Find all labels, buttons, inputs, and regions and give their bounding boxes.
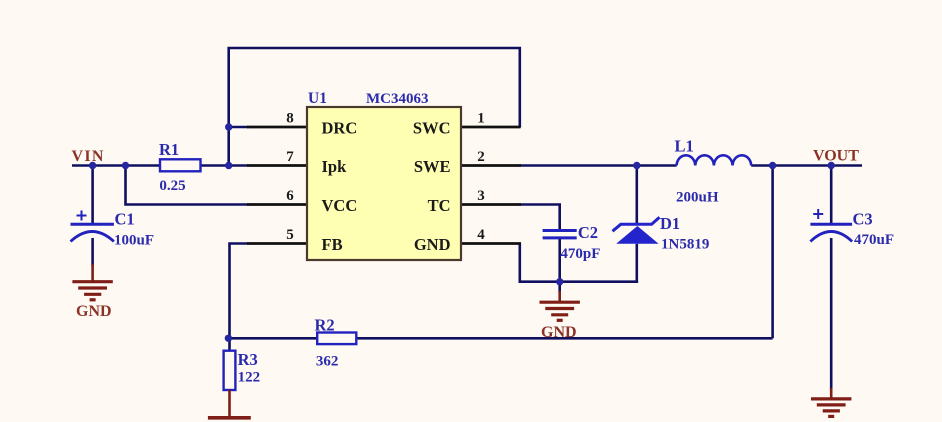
inductor L1 (677, 155, 752, 165)
op-amp U1 body MC34063 (307, 107, 461, 260)
svg-text:5: 5 (286, 227, 294, 243)
svg-text:MC34063: MC34063 (366, 91, 429, 107)
svg-text:362: 362 (316, 354, 339, 370)
svg-text:SWE: SWE (414, 157, 451, 176)
svg-text:U1: U1 (308, 90, 327, 107)
ground symbol under C2 (540, 291, 580, 320)
wire GND pin4 down to bottom rail (520, 244, 638, 282)
ground symbol under C1 (72, 264, 112, 300)
svg-text:C3: C3 (853, 210, 873, 229)
capacitor C3 (810, 209, 852, 242)
svg-text:SWC: SWC (413, 119, 451, 138)
wire VCC feed (126, 166, 249, 205)
wire C3 top (830, 166, 833, 226)
svg-text:VOUT: VOUT (813, 147, 859, 164)
pin 8 stub (247, 126, 307, 129)
wire TC pin3 to C2 (520, 205, 560, 230)
svg-text:6: 6 (286, 188, 294, 204)
svg-text:GND: GND (76, 303, 112, 320)
capacitor C1 (71, 211, 114, 242)
svg-text:470pF: 470pF (560, 246, 600, 262)
svg-text:D1: D1 (660, 214, 680, 233)
svg-text:TC: TC (428, 196, 451, 215)
junction node VCC tap (122, 162, 129, 169)
svg-text:DRC: DRC (322, 119, 358, 138)
svg-text:0.25: 0.25 (159, 178, 185, 194)
resistor R1 (160, 159, 201, 171)
wire feedback tap vertical (771, 166, 774, 339)
wire D1 cathode to SWE rail (635, 166, 638, 225)
svg-text:R3: R3 (238, 350, 258, 369)
junction node D1/SWE (633, 162, 640, 169)
svg-text:8: 8 (286, 111, 294, 127)
wire VIN rail right segment (R1 to pin7) (201, 164, 249, 167)
junction node pin7/top loop (225, 162, 232, 169)
pin 2 stub (461, 164, 522, 167)
svg-text:2: 2 (477, 149, 485, 165)
junction node feedback tap on VOUT rail (769, 162, 776, 169)
pin 5 stub (247, 242, 307, 245)
wire VIN rail left segment (72, 164, 160, 167)
junction node VIN/C1 (89, 162, 96, 169)
svg-text:100uF: 100uF (114, 233, 154, 249)
pin 6 stub (247, 203, 307, 206)
svg-text:122: 122 (238, 369, 261, 385)
wire C1 top (91, 166, 94, 226)
svg-text:VCC: VCC (322, 196, 358, 215)
junction node C2/ground rail (556, 278, 563, 285)
svg-text:3: 3 (477, 188, 485, 204)
wire R2 row (228, 337, 772, 340)
svg-text:R1: R1 (159, 140, 179, 159)
wire pin8 to left vertical (229, 126, 249, 129)
svg-text:200uH: 200uH (676, 189, 719, 205)
svg-text:C2: C2 (578, 223, 598, 242)
ground bar symbol under R3 (208, 390, 251, 418)
resistor R2 (317, 333, 356, 345)
svg-text:1N5819: 1N5819 (661, 237, 709, 253)
svg-text:VIN: VIN (72, 148, 105, 165)
wire top loop (pin8 rail up over IC down to pin1) (229, 48, 520, 166)
wire SWE pin2 to inductor (520, 164, 677, 167)
wire D1 anode to bottom rail (635, 244, 638, 283)
junction node C3 tap on VOUT rail (828, 162, 835, 169)
wire C1 bottom to ground (91, 238, 94, 266)
pin 7 stub (247, 164, 307, 167)
resistor R3 (224, 351, 236, 390)
svg-text:GND: GND (414, 235, 451, 254)
svg-text:Ipk: Ipk (322, 157, 348, 176)
junction node R2/R3/FB (225, 335, 232, 342)
svg-text:L1: L1 (675, 137, 694, 156)
ground symbol under C3 (811, 388, 851, 416)
svg-text:1: 1 (477, 111, 485, 127)
svg-text:GND: GND (541, 324, 577, 341)
capacitor C2 (543, 231, 577, 238)
wire FB pin5 to divider junction (230, 244, 249, 339)
pin 1 stub (461, 126, 521, 129)
wire R3 top (228, 338, 231, 350)
wire C3 bottom to ground (830, 238, 833, 390)
wire inductor to VOUT rail end (751, 164, 862, 167)
svg-text:4: 4 (477, 227, 485, 243)
wire C2 bottom (558, 239, 561, 293)
diode D1 (Schottky 1N5819) (613, 217, 660, 244)
junction node pin8/top loop (225, 123, 232, 130)
pin 4 stub (461, 242, 522, 245)
svg-text:7: 7 (286, 149, 294, 165)
svg-text:C1: C1 (115, 210, 135, 229)
pin 3 stub (461, 203, 522, 206)
svg-text:R2: R2 (315, 316, 335, 335)
svg-text:FB: FB (322, 235, 343, 254)
svg-text:470uF: 470uF (854, 232, 894, 248)
